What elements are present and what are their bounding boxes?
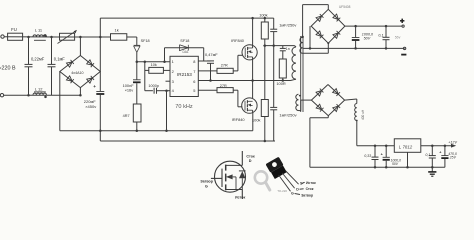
svg-text:≈220 В: ≈220 В <box>0 65 16 71</box>
wire IC COM down to minus bus <box>165 89 168 92</box>
svg-text:1n: 1n <box>286 47 290 51</box>
aux winding to aux bridge left vertex <box>299 110 301 112</box>
bridge VD2 UF5408 diode bottom-right <box>333 33 338 39</box>
capacitor 1000p (CT) <box>145 90 153 92</box>
svg-text:0,1: 0,1 <box>425 153 430 157</box>
bridge VD3 aux diode top-left <box>316 91 322 96</box>
svg-text:3: 3 <box>172 79 174 84</box>
input terminal top (~220V line) <box>1 35 4 38</box>
regulator output wire <box>421 145 451 147</box>
svg-text:1: 1 <box>172 59 174 64</box>
svg-text:1мF/250v: 1мF/250v <box>279 113 296 118</box>
filter inductor 400uH <box>355 104 357 121</box>
svg-text:Исток: Исток <box>306 181 316 185</box>
svg-text:27R: 27R <box>220 84 227 88</box>
svg-text:L 7812: L 7812 <box>399 144 413 149</box>
svg-text:+12V: +12V <box>448 140 457 144</box>
transformer aux winding <box>296 94 299 110</box>
svg-text:UF5408: UF5408 <box>339 5 351 9</box>
svg-text:G: G <box>291 192 294 196</box>
bridge VD2 UF5408 frame <box>311 9 345 43</box>
pinout gate lead <box>211 177 222 179</box>
resistor 10k (RT) <box>145 69 149 71</box>
capacitor 0,1 12V <box>431 146 433 156</box>
inductor L12 <box>33 93 47 95</box>
wire diode to VB node <box>203 48 205 61</box>
aux bridge bottom to ground bus <box>327 116 329 118</box>
half-bridge mid wire <box>252 57 254 98</box>
X capacitor 0,22uF <box>28 37 30 64</box>
input terminal bottom <box>0 94 3 97</box>
transformer secondary upper winding <box>300 37 303 53</box>
node: X cap 1 bottom <box>27 94 30 97</box>
bridge bottom vertex drop <box>327 43 329 53</box>
input rectifier bridge 4x4A10 <box>79 37 81 56</box>
capacitive divider mid line <box>263 45 294 47</box>
svg-text:IRF840: IRF840 <box>232 117 246 122</box>
node bridge bottom riser <box>79 94 82 97</box>
earth ground symbol <box>431 167 433 171</box>
wire 27R to lower gate <box>233 89 238 91</box>
minus bus (bottom rail) <box>60 130 253 132</box>
svg-text:50V: 50V <box>392 162 399 166</box>
RT network rail <box>144 62 146 91</box>
bridge VD1 4x4A10 diode bottom-right <box>87 78 93 83</box>
transformer T1 primary winding <box>295 46 297 47</box>
node: X cap 2 top <box>50 36 53 39</box>
resistor 1k <box>111 34 127 41</box>
capacitor 1000uF 50V output <box>355 26 357 37</box>
svg-text:8: 8 <box>193 59 195 64</box>
svg-text:+: + <box>93 84 96 89</box>
zener diode SF18 (VCC supply) <box>136 37 138 45</box>
svg-text:0,1: 0,1 <box>378 33 383 37</box>
pin name arrows <box>302 182 305 183</box>
wire varistor to 1k, node bridge top <box>60 36 111 38</box>
top +310V rail <box>100 17 273 19</box>
bridge VD2 UF5408 diode bottom-left <box>316 31 322 37</box>
svg-text:4R7: 4R7 <box>123 114 130 118</box>
svg-text:IR2153: IR2153 <box>177 72 192 77</box>
X capacitor 0,1uF <box>51 37 53 64</box>
wire inductor to regulator input <box>356 121 358 146</box>
regulator ground pin <box>407 152 409 167</box>
ground bus of 12V section <box>310 166 445 168</box>
bridge VD3 aux diode bottom-right <box>333 106 339 111</box>
svg-text:50V: 50V <box>364 36 371 40</box>
divider resistor 100k lower <box>264 46 266 100</box>
divider capacitor 1uF/250v lower <box>273 46 275 108</box>
divider capacitor 1uF/250v upper <box>273 18 275 29</box>
svg-text:D: D <box>249 159 252 163</box>
svg-text:Сток: Сток <box>306 187 314 191</box>
pinout drain lead <box>241 151 243 165</box>
svg-text:100k: 100k <box>259 12 267 17</box>
bridge VD3 aux diode bottom-left <box>316 104 322 109</box>
bootstrap diode SF18 top <box>164 48 166 62</box>
varistor RU1 <box>60 33 75 40</box>
snubber capacitor 1n <box>282 46 284 49</box>
wire bus1 down to bus2 <box>99 131 101 141</box>
svg-text:SF18: SF18 <box>141 39 150 43</box>
svg-text:1мF/250v: 1мF/250v <box>279 23 296 28</box>
wire L12 to bridge bottom riser <box>33 94 80 96</box>
svg-text:IRF840: IRF840 <box>231 38 245 43</box>
output minus terminal <box>403 47 405 49</box>
magnifier icon <box>255 171 270 190</box>
divider resistor 100k upper <box>264 18 266 22</box>
regulator L7812 <box>394 139 421 153</box>
wire 1k to zener node <box>127 36 137 38</box>
VCC node wire to IC pin 1 <box>137 61 170 63</box>
svg-text:TO-220: TO-220 <box>277 189 287 193</box>
output plus terminal <box>402 25 404 27</box>
svg-text:0,33: 0,33 <box>364 154 371 158</box>
svg-text:FU: FU <box>11 27 17 32</box>
svg-text:100R: 100R <box>276 81 285 86</box>
bridge VD2 UF5408 diode top-right <box>333 14 339 20</box>
bridge VD1 4x4A10 frame <box>60 56 101 88</box>
capacitor 470uF 25V <box>444 146 446 156</box>
capacitor 1000uF 50V aux <box>385 146 387 158</box>
aux bridge plus to filter inductor <box>345 99 357 100</box>
svg-text:×450v: ×450v <box>85 104 96 109</box>
svg-text:5: 5 <box>193 88 195 93</box>
capacitor 0,1 output <box>385 26 387 37</box>
snubber resistor 100R <box>282 51 284 59</box>
second minus bus <box>100 140 275 142</box>
pinout MOSFET symbol circle <box>215 161 246 192</box>
pinout source lead <box>241 190 243 200</box>
bridge VD1 4x4A10 diode top-right <box>87 60 93 65</box>
bridge VD1 4x4A10 diode bottom-left <box>66 76 72 81</box>
TO-220 package <box>266 157 288 180</box>
svg-text:27R: 27R <box>221 63 228 67</box>
pinout body diode <box>239 170 246 172</box>
svg-text:G: G <box>205 184 208 188</box>
MOSFET Q1 IRF840 upper <box>242 45 257 60</box>
svg-text:25V: 25V <box>449 156 457 160</box>
riser +310V: bridge plus up to top rail <box>99 18 101 91</box>
svg-text:Затвор: Затвор <box>200 180 213 184</box>
bridge VD2 UF5408 diode top-left <box>316 16 322 21</box>
resistor 27R lower gate <box>198 89 217 91</box>
wire lower source down <box>252 110 254 113</box>
bridge VD3 aux frame <box>311 85 344 116</box>
secondary lower lead line <box>303 52 329 54</box>
svg-text:6: 6 <box>193 79 195 84</box>
capacitor 0,47uF (bootstrap VB) <box>198 60 210 62</box>
svg-text:0,1мF: 0,1мF <box>54 57 66 62</box>
svg-text:7: 7 <box>193 69 195 74</box>
output plus rail <box>345 25 402 27</box>
pinout internal top bar <box>226 164 243 166</box>
MOSFET Q2 IRF840 lower <box>242 98 257 113</box>
VS line pin6 to half-bridge midpoint <box>198 80 290 82</box>
wire drain to +rail <box>252 18 254 48</box>
wire bridge minus down to bus <box>59 72 61 131</box>
pinout gate bar <box>221 169 223 187</box>
wire 27R to upper gate <box>233 70 238 72</box>
svg-text:L 11: L 11 <box>35 27 43 32</box>
IC U1 IR2153 <box>170 56 198 96</box>
bridge VD3 aux diode top-right <box>333 89 339 94</box>
IC pin3 stub <box>166 80 171 82</box>
svg-text:L 12: L 12 <box>35 86 43 91</box>
svg-text:0,47мF: 0,47мF <box>205 52 218 57</box>
svg-text:SF18: SF18 <box>180 39 189 43</box>
fuse FU <box>8 33 23 40</box>
svg-text:Затвор: Затвор <box>301 194 313 198</box>
pinout bottom bar <box>226 189 243 191</box>
pinout substrate arrow <box>226 174 233 179</box>
svg-text:1k: 1k <box>115 27 119 32</box>
svg-text:1000p: 1000p <box>148 84 159 88</box>
secondary upper lead to bridge top <box>301 36 304 39</box>
svg-text:2: 2 <box>172 69 174 74</box>
svg-text:×16v: ×16v <box>125 88 134 93</box>
capacitor 100nF 16v (VCC filter) <box>136 62 138 80</box>
bridge minus drop to minus rail <box>309 26 311 48</box>
svg-text:56v: 56v <box>395 36 401 40</box>
+12V terminal arrow <box>451 144 456 148</box>
inductor L11 <box>33 35 47 37</box>
resistor 27R upper gate <box>198 70 217 72</box>
svg-text:400 uH: 400 uH <box>361 109 365 120</box>
output minus rail <box>303 47 404 49</box>
wire through fuse to L11 <box>4 36 59 38</box>
capacitor 0,33 input of regulator <box>374 146 376 157</box>
svg-text:Исток: Исток <box>235 196 245 199</box>
capacitor 220uF 450v <box>96 91 104 93</box>
svg-text:0,22мF: 0,22мF <box>31 57 45 62</box>
svg-text:100k: 100k <box>252 118 260 123</box>
pinout channel segments <box>225 165 227 171</box>
svg-text:10k: 10k <box>151 63 157 67</box>
svg-text:D: D <box>296 188 299 192</box>
node: X cap 1 top <box>27 36 30 39</box>
TO-220 legs <box>279 175 291 191</box>
transformer core <box>300 36 302 112</box>
svg-text:70 kHz: 70 kHz <box>175 104 193 110</box>
resistor 4R7 <box>133 104 141 122</box>
svg-text:4x4A10: 4x4A10 <box>71 71 83 75</box>
wire bus up to lower MOSFET source <box>252 113 254 131</box>
bridge VD1 4x4A10 diode top-left <box>66 62 72 67</box>
